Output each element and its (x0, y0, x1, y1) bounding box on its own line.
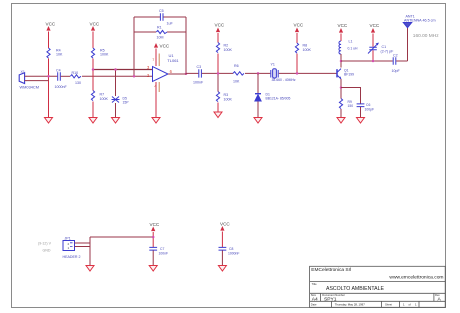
svg-text:1: 1 (403, 302, 405, 306)
wire emitter to C6 (341, 88, 361, 104)
resistor R2 (216, 43, 219, 53)
wire R9 to ground (340, 109, 342, 117)
wire R3 lower (217, 73, 219, 91)
svg-text:VCC: VCC (46, 22, 56, 27)
wire feedback R1 run (134, 31, 156, 33)
wire JP1 pin2 stub (75, 242, 91, 244)
ground (C6) (357, 118, 365, 124)
svg-text:VCC: VCC (150, 222, 160, 227)
capacitor C6 (357, 104, 365, 107)
svg-text:BF199: BF199 (344, 72, 354, 76)
node feedback to output (185, 73, 188, 76)
svg-text:A: A (438, 297, 442, 303)
ground (D5) (112, 118, 120, 124)
wire C8 to ground (221, 251, 223, 266)
wire C2 to antenna (396, 60, 407, 62)
ground (R7) (89, 118, 97, 124)
svg-text:Sheet: Sheet (385, 302, 392, 306)
svg-text:100nF: 100nF (193, 80, 204, 84)
wire R6 to Y1 (245, 72, 270, 74)
microphone X1 (19, 73, 26, 84)
ground (C7) (149, 266, 157, 272)
ground (op-amp) (152, 118, 160, 124)
svg-text:Date: Date (311, 302, 317, 306)
svg-text:100pF: 100pF (365, 107, 375, 111)
variable capacitor C1 (368, 43, 379, 54)
svg-text:100K: 100K (100, 97, 109, 101)
wire bias to op-amp pin 3 (93, 69, 153, 71)
svg-text:38.660 - 40MHz: 38.660 - 40MHz (272, 78, 296, 82)
svg-text:10K: 10K (56, 53, 63, 57)
resistor R3 (216, 92, 219, 102)
svg-text:VCC: VCC (370, 23, 380, 28)
svg-text:130: 130 (75, 81, 81, 85)
inductor L1 (339, 41, 341, 54)
ground (JP1) (86, 266, 94, 272)
wire mic lower terminal (26, 80, 49, 82)
svg-text:VCC: VCC (294, 23, 304, 28)
svg-text:WM034CM: WM034CM (20, 85, 39, 90)
node mic bias junction (47, 75, 50, 78)
svg-text:X1: X1 (21, 70, 25, 74)
svg-text:VCC: VCC (90, 22, 100, 27)
power VCC net 2 (91, 26, 95, 117)
svg-text:100nF: 100nF (159, 251, 169, 255)
ground (R3) (214, 112, 222, 118)
resistor R4 (47, 48, 50, 58)
node C1 to tank (372, 60, 375, 63)
svg-text:15P: 15P (123, 100, 130, 104)
svg-text:Thursday, May 28, 1997: Thursday, May 28, 1997 (335, 302, 365, 306)
svg-text:100K: 100K (303, 48, 312, 52)
svg-text:of: of (409, 302, 411, 306)
wire varicap branch (115, 70, 117, 97)
svg-text:C4: C4 (56, 69, 61, 73)
capacitor C3 (199, 69, 202, 77)
svg-text:Y1: Y1 (271, 63, 275, 67)
node feedback to pin2 (133, 75, 136, 78)
svg-text:C2: C2 (393, 54, 398, 58)
wire mic out to C4 (26, 75, 57, 77)
resistor R6 (233, 72, 244, 75)
resistor R10 (70, 75, 81, 78)
diode D5 15P (112, 97, 120, 103)
svg-text:VCC: VCC (338, 23, 348, 28)
svg-text:JP1: JP1 (65, 237, 71, 241)
svg-text:1: 1 (415, 302, 417, 306)
svg-text:0.1 uH: 0.1 uH (348, 46, 359, 50)
svg-text:www.emcelettronica.com: www.emcelettronica.com (389, 275, 443, 281)
power VCC op-amp (154, 43, 158, 66)
title block frame (310, 266, 446, 307)
connector JP1 HEADER 2 (63, 241, 75, 251)
wire feedback top run (134, 16, 186, 18)
resistor R7 (91, 91, 94, 101)
svg-text:6: 6 (170, 69, 173, 74)
power VCC net 9 (C8) (220, 226, 224, 247)
svg-text:(9-12) V: (9-12) V (38, 241, 52, 245)
op-amp U1 pin 7 stub (158, 54, 160, 67)
capacitor C7 (149, 247, 157, 250)
wire supply run to VCC (90, 236, 153, 238)
wire D1 branch (257, 73, 259, 117)
svg-text:VCC: VCC (220, 222, 230, 227)
node R2 R3 junction (217, 72, 220, 75)
svg-text:160.00 MHz: 160.00 MHz (413, 33, 439, 39)
ground (C8) (218, 266, 226, 272)
svg-text:1uF: 1uF (167, 21, 174, 25)
resistor R1 (156, 30, 167, 33)
svg-text:GND: GND (43, 249, 51, 253)
resistor R5 (91, 48, 94, 58)
svg-text:1: 1 (68, 246, 70, 250)
resistor R9 (339, 99, 342, 109)
svg-text:2: 2 (147, 73, 150, 78)
svg-text:ASCOLTO AMBIENTALE: ASCOLTO AMBIENTALE (326, 286, 384, 292)
wire C7 to ground (152, 251, 154, 266)
svg-text:A4: A4 (312, 297, 318, 303)
svg-text:VCC: VCC (215, 23, 225, 28)
wire C3 to R6 (202, 72, 233, 74)
wire L1 to collector (340, 54, 342, 68)
power VCC net 5 (295, 28, 299, 74)
svg-text:10K: 10K (233, 80, 240, 84)
svg-text:EMCelettronica Srl: EMCelettronica Srl (311, 267, 351, 273)
svg-text:R1: R1 (157, 25, 162, 29)
ground (mic bias net) (45, 118, 53, 124)
svg-text:ANTENNA 46.5 cm: ANTENNA 46.5 cm (404, 18, 436, 22)
antenna ANT1 (403, 23, 411, 28)
node base bias junction (296, 72, 299, 75)
wire R10 to op-amp pin 2 (82, 75, 153, 77)
svg-text:100K: 100K (224, 48, 233, 52)
svg-text:R6: R6 (234, 64, 239, 68)
svg-text:BB121A- 85/005: BB121A- 85/005 (266, 97, 291, 101)
wire Y1 to Q1 base (279, 72, 337, 74)
transistor Q1 BF199 (337, 69, 341, 80)
wire tank run (341, 60, 393, 62)
svg-text:R10: R10 (72, 71, 79, 75)
svg-text:7: 7 (152, 58, 154, 62)
capacitor C4 (58, 72, 61, 81)
ground (R9) (337, 118, 345, 124)
resistor R8 (295, 43, 298, 53)
svg-text:Rev: Rev (435, 293, 440, 297)
wire op-amp output (168, 72, 198, 75)
svg-text:150: 150 (348, 104, 354, 108)
node collector junction (340, 60, 343, 63)
diode D1 (255, 94, 261, 101)
node D1 tap (257, 72, 260, 75)
svg-text:100K: 100K (100, 53, 109, 57)
wire C4 to R10 (61, 75, 70, 77)
svg-text:HEADER 2: HEADER 2 (63, 255, 81, 259)
power VCC net 4 (216, 28, 220, 112)
crystal Y1 (271, 69, 278, 78)
node divider junction (92, 68, 95, 71)
svg-text:10M: 10M (157, 35, 164, 39)
svg-text:10pF: 10pF (392, 69, 401, 73)
svg-text:VCC: VCC (160, 44, 170, 49)
wire feedback left vertical (133, 17, 135, 76)
power VCC net 7 (C1) (371, 28, 375, 61)
capacitor C5 (160, 13, 163, 20)
svg-text:1000nF: 1000nF (228, 252, 240, 256)
node emitter junction (340, 86, 343, 89)
ground (D1) (254, 118, 262, 124)
op-amp U1 TL061 (153, 67, 169, 82)
wire antenna drop (407, 28, 409, 61)
wire JP1 pin1 stub (75, 246, 91, 248)
wire supply riser (89, 237, 91, 265)
wire C6 to ground (360, 107, 362, 117)
svg-text:100K: 100K (224, 97, 233, 101)
capacitor C8 (219, 247, 227, 250)
svg-text:C5: C5 (159, 9, 164, 13)
power VCC net 1 (46, 26, 50, 117)
svg-text:Title: Title (312, 282, 317, 286)
power VCC net 6 (L1) (339, 28, 343, 41)
svg-text:(2-7) pF: (2-7) pF (381, 49, 395, 53)
power VCC net 8 (C7) (151, 227, 155, 248)
svg-text:TL061: TL061 (167, 58, 179, 63)
svg-text:1000nF: 1000nF (55, 85, 68, 89)
node supply junction (152, 236, 155, 239)
svg-text:C3: C3 (197, 65, 202, 69)
node varicap tap (114, 68, 117, 71)
wire op-amp ground (155, 82, 157, 117)
op-amp U1 pin 4 stub (158, 82, 160, 92)
wire emitter (340, 79, 342, 99)
wire feedback right vertical (185, 17, 187, 74)
svg-text:L1: L1 (349, 40, 353, 44)
capacitor C2 (393, 57, 396, 65)
